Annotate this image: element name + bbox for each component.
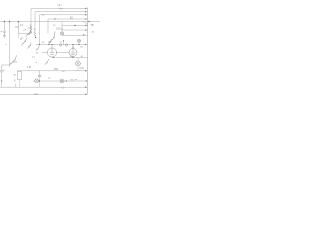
wire drop x18.5 bbox=[19, 22, 32, 34]
tube V2 envelope bbox=[69, 49, 77, 57]
wire plate line y44.5 bbox=[36, 44, 86, 46]
svg-text:2k: 2k bbox=[33, 29, 36, 31]
junction dot line4 x55 bbox=[54, 18, 55, 19]
svg-text:25: 25 bbox=[53, 25, 56, 27]
jack J4 circle above plate line bbox=[78, 39, 81, 42]
resistor R4 diagonal bbox=[22, 38, 27, 46]
junction dot x62 y29 bbox=[61, 28, 62, 29]
wire V1 right lead bbox=[57, 52, 70, 54]
svg-text:25: 25 bbox=[36, 53, 39, 55]
tube V1 envelope bbox=[47, 48, 56, 57]
resistor R8 diagonal left bbox=[9, 56, 17, 67]
wire top line 3 bbox=[40, 15, 87, 45]
svg-text:7B: 7B bbox=[91, 24, 94, 27]
wire jack line y81 bbox=[39, 80, 88, 82]
wire filament line y70.8 bbox=[18, 70, 87, 72]
resistor R2 on x35 bbox=[34, 31, 36, 37]
tube V2 grid bbox=[71, 49, 75, 55]
junction dot y44.5 x79 bbox=[78, 44, 79, 45]
arrowhead line4 bbox=[85, 18, 87, 20]
junction dot jack J3 right bbox=[66, 80, 67, 81]
junction dot cathode x53 bbox=[53, 57, 54, 58]
wire x39.5 below filament line bbox=[39, 71, 41, 75]
junction dot R2 bottom bbox=[35, 37, 36, 38]
svg-text:50k: 50k bbox=[14, 62, 18, 64]
junction dot V2 top bbox=[72, 47, 73, 48]
capacitor C4 plates bbox=[38, 75, 41, 76]
wire mid line y25.5 bbox=[62, 25, 86, 27]
junction dot grid drop bbox=[63, 40, 64, 41]
junction dot y44.5 x52 bbox=[51, 44, 52, 45]
arrowhead y94.3 bbox=[85, 94, 87, 96]
arrowhead y44.5 bbox=[85, 44, 87, 46]
svg-text:S: S bbox=[14, 80, 16, 83]
junction cross y35.5 x83.8 bbox=[83, 34, 85, 36]
wire V2 cathode lead bbox=[72, 57, 74, 58]
resistor R1 on x31 bbox=[30, 25, 32, 32]
wire jack line left stub bbox=[33, 80, 35, 82]
wire left drop x9.5 bbox=[2, 22, 10, 70]
svg-text:2b: 2b bbox=[92, 31, 95, 33]
svg-text:1 M: 1 M bbox=[27, 66, 31, 69]
jack terminal circle a bbox=[59, 44, 61, 46]
wire C2 to bottom rail bbox=[1, 72, 3, 87]
svg-text:6.3v: 6.3v bbox=[80, 68, 85, 70]
junction dot rail x89 bbox=[88, 21, 89, 22]
svg-text:25: 25 bbox=[60, 42, 63, 44]
arrowhead y25.5 bbox=[85, 25, 87, 27]
wire stub below x18.5 bbox=[18, 34, 20, 39]
wire left drop x4.5 bbox=[4, 22, 6, 31]
svg-text:.5: .5 bbox=[6, 43, 8, 46]
tube V1 grid bbox=[50, 48, 55, 55]
wire hop on bottom line bbox=[61, 87, 64, 88]
ground symbol left bbox=[3, 36, 6, 38]
svg-text:B+: B+ bbox=[81, 47, 84, 49]
resistor R6 diagonal bbox=[36, 46, 39, 51]
svg-text:C: C bbox=[4, 70, 6, 72]
wire top supply rail bbox=[0, 21, 100, 23]
wire L1 lower stub bbox=[77, 66, 79, 71]
wire drop x62 to jack bbox=[61, 22, 63, 32]
wire bottom line y94.3 bbox=[1, 93, 87, 95]
jack J3 circle bbox=[60, 79, 64, 83]
wire top line 1 bbox=[31, 9, 86, 34]
wire C4 to bottom rail bbox=[39, 77, 41, 88]
arrowhead y87.2 bbox=[85, 86, 87, 88]
jack terminal circle b bbox=[65, 44, 67, 46]
wire V1 cathode lead bbox=[52, 56, 53, 59]
junction dot y44.5 x39.5 bbox=[39, 44, 40, 45]
resistor R5 diagonal bbox=[28, 43, 32, 49]
wire top line 2 bbox=[35, 12, 86, 31]
resistor R7 diagonal big bbox=[49, 32, 55, 44]
pilot lamp L1 circle bbox=[76, 61, 81, 66]
resistor R3 diagonal bbox=[26, 31, 31, 37]
wire grid drop x63.5 bbox=[63, 41, 65, 45]
wire hop on filament line bbox=[62, 71, 65, 72]
arrowhead y30 bbox=[85, 29, 87, 30]
junction dot y25.5 x75 bbox=[74, 25, 75, 26]
wire bottom line y87.2 bbox=[1, 86, 87, 88]
wire cathode line y57.5 bbox=[54, 57, 88, 59]
svg-text:k: k bbox=[36, 62, 38, 64]
junction dot rail x9.5 bbox=[9, 21, 10, 22]
junction dot y81 end bbox=[86, 80, 87, 81]
svg-text:x4 t: x4 t bbox=[58, 4, 62, 7]
arrowhead y70.8 bbox=[85, 70, 87, 72]
wire L1 upper stub bbox=[77, 58, 79, 62]
svg-text:F: F bbox=[29, 34, 31, 36]
svg-text:6C: 6C bbox=[42, 42, 45, 44]
junction dot rail x4.5 bbox=[4, 21, 5, 22]
wire top line 4 bbox=[48, 19, 86, 33]
wire V2 plate lead bbox=[72, 45, 74, 49]
arrowhead line3 bbox=[85, 14, 87, 16]
svg-text:0.1: 0.1 bbox=[20, 25, 24, 27]
svg-text:μF: μF bbox=[20, 39, 23, 41]
junction dot R1 bottom bbox=[30, 32, 31, 33]
junction dot cathode x73 bbox=[72, 57, 73, 58]
svg-text:sw: sw bbox=[75, 79, 78, 81]
electrolytic capacitor C3 box bbox=[18, 71, 22, 79]
capacitor C2 plates bbox=[0, 70, 3, 72]
svg-text:alt: alt bbox=[48, 76, 51, 79]
wire rail to bus curved join bbox=[83, 22, 88, 27]
svg-text:4k: 4k bbox=[14, 75, 17, 77]
junction dot rail x18.5 bbox=[18, 21, 19, 22]
wire mid line y35.5 bbox=[62, 35, 87, 37]
svg-text:0.25: 0.25 bbox=[56, 29, 61, 31]
wire C3 to bottom rail bbox=[19, 80, 21, 88]
wire V1 plate lead bbox=[51, 45, 53, 49]
junction dot y44.5 x73 bbox=[72, 44, 73, 45]
wire mid line y30 bbox=[62, 29, 87, 31]
wire J4 stub bbox=[78, 42, 80, 44]
svg-text:μF: μF bbox=[24, 29, 27, 31]
phone jack J1 circle bbox=[60, 32, 63, 35]
wire right vertical bus bbox=[87, 8, 89, 95]
resistor R9 diagonal small bbox=[45, 59, 48, 64]
wire R2 tail bbox=[34, 36, 37, 39]
wire V1 left lead bbox=[42, 52, 48, 54]
arrowhead line1 bbox=[85, 8, 87, 10]
svg-text:0.1: 0.1 bbox=[32, 57, 36, 59]
switch dash mark bbox=[71, 79, 74, 81]
junction dot bottom x38.6 bbox=[39, 80, 40, 81]
junction dot y44.5 x49 bbox=[48, 44, 49, 45]
svg-text:P: P bbox=[1, 80, 3, 83]
jack J2 circle bbox=[35, 79, 39, 83]
wire S tick bbox=[15, 84, 17, 88]
capacitor C1 plates bbox=[1, 31, 7, 35]
arrowhead line2 bbox=[85, 11, 87, 13]
